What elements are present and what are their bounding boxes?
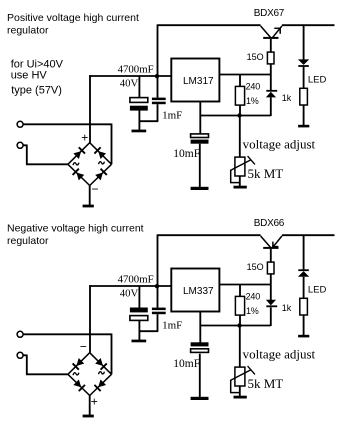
ground C3 <box>191 187 209 190</box>
ground bridge <box>83 205 94 208</box>
bridge ~ label right <box>99 372 105 375</box>
wire base lead down to R 15O <box>270 39 272 52</box>
wire LED branch tap from output <box>303 234 305 269</box>
LED indicator (pointing down) <box>298 59 309 67</box>
wire bridge bottom to ground <box>89 186 91 206</box>
svg-text:+: + <box>81 130 88 144</box>
bridge diode bottom-right (from -) <box>95 168 108 181</box>
capacitor 1mF <box>152 98 166 105</box>
terminal input 2 <box>17 142 23 148</box>
resistor 240 1% <box>235 86 244 105</box>
wire input 2 to bridge left corner <box>23 145 68 165</box>
diode D2 protection (pointing down) <box>266 300 277 307</box>
svg-text:−: − <box>80 340 87 354</box>
wire vertical from rail down to bridge + corner <box>89 285 91 353</box>
wire input rail <box>89 75 171 77</box>
svg-text:voltage adjust: voltage adjust <box>243 346 316 361</box>
ground C1 <box>132 340 147 343</box>
svg-text:1mF: 1mF <box>162 109 182 121</box>
wire LED anode to R 1k <box>303 277 305 299</box>
wire from R 15O to OUT node <box>270 64 272 90</box>
wire R240 bottom lead <box>239 315 241 325</box>
resistor 240 1% <box>235 296 244 315</box>
capacitor C4 4700mF electrolytic (+ plate down) <box>130 308 148 321</box>
ground pot <box>234 396 247 399</box>
terminal bar LED branch <box>298 125 309 128</box>
wire from R 15O to OUT node <box>270 274 272 300</box>
svg-text:5k MT: 5k MT <box>248 376 284 391</box>
wire ADJ net horizontal <box>200 325 271 327</box>
svg-text:Negative voltage high current: Negative voltage high current <box>7 223 144 235</box>
wire C2 bottom lead <box>157 104 159 121</box>
wire C2 to C1 ground connector <box>139 120 159 122</box>
svg-text:LM317: LM317 <box>183 76 214 87</box>
terminal input 2 <box>17 352 23 358</box>
svg-text:1%: 1% <box>246 306 259 316</box>
wire input 2 to bridge left corner <box>23 355 68 375</box>
svg-text:15O: 15O <box>247 52 264 62</box>
svg-text:4700mF: 4700mF <box>118 274 154 286</box>
svg-text:voltage adjust: voltage adjust <box>243 136 316 151</box>
resistor 1k <box>300 88 308 105</box>
bridge ~ label left <box>73 373 79 376</box>
wire pot wiper to bottom lead <box>230 170 240 183</box>
node junction dot rail / C1 / C2 <box>155 74 159 78</box>
svg-text:LED: LED <box>308 75 327 86</box>
bridge rectifier frame <box>68 143 112 186</box>
wire R240 top lead <box>239 75 241 87</box>
svg-text:10mF: 10mF <box>173 148 200 160</box>
svg-text:40V: 40V <box>120 77 139 89</box>
wire regulator output to 15O bottom node <box>219 284 271 286</box>
svg-text:regulator: regulator <box>7 25 49 37</box>
wire LED cathode to R 1k <box>303 67 305 88</box>
bridge ~ label right <box>99 162 105 165</box>
wire bridge bottom to ground <box>89 396 91 416</box>
bridge diode top-left (to +) <box>73 147 86 160</box>
wire C2 bottom lead <box>157 314 159 331</box>
bridge diode bottom-left (to +) <box>73 379 86 392</box>
svg-text:240: 240 <box>246 291 261 301</box>
wire regulator output to 15O bottom node <box>219 74 271 76</box>
terminal input 1 <box>17 331 23 337</box>
bridge diode top-right (to +) <box>94 147 107 160</box>
wire diode to ADJ net <box>270 307 272 326</box>
svg-text:240: 240 <box>246 81 261 91</box>
wire collector rail top segment <box>158 24 261 26</box>
diode D1 protection (pointing up) <box>266 90 277 98</box>
svg-text:5k MT: 5k MT <box>248 166 284 181</box>
svg-text:−: − <box>92 182 99 196</box>
svg-text:LED: LED <box>308 285 327 296</box>
bridge rectifier frame <box>68 353 112 396</box>
wire regulator ADJ pin down <box>199 312 201 344</box>
wire C3 bottom lead <box>199 354 201 398</box>
regulator LM337 <box>171 269 219 312</box>
ground pot <box>234 186 247 189</box>
svg-text:BDX66: BDX66 <box>254 218 285 229</box>
wire pot wiper to bottom lead <box>230 380 240 393</box>
bridge diode bottom-left (from -) <box>72 168 85 181</box>
wire input rail <box>89 285 171 287</box>
wire vertical from rail down to bridge + corner <box>89 75 91 143</box>
resistor 15O <box>267 52 274 64</box>
svg-text:15O: 15O <box>247 262 264 272</box>
wire C1 bottom lead <box>138 110 140 130</box>
wire emitter output segment <box>282 234 335 236</box>
wire pot top lead <box>239 326 241 368</box>
wire pot bottom lead <box>239 176 241 186</box>
wire vertical from input rail junction up to collector rail <box>157 24 159 97</box>
wire C1 top lead <box>138 286 140 308</box>
svg-text:LM337: LM337 <box>183 286 214 297</box>
ground C1 <box>132 130 147 133</box>
wire collector rail top segment <box>158 234 261 236</box>
wire pot bottom lead <box>239 386 241 396</box>
ground bridge <box>83 415 94 418</box>
wire diode to ADJ net <box>270 97 272 116</box>
wire base lead down to R 15O <box>270 249 272 262</box>
resistor 15O <box>267 262 274 274</box>
wire emitter output segment <box>282 24 335 26</box>
capacitor C3 10mF electrolytic (+ up) <box>191 134 209 144</box>
wire R 1k to terminal <box>303 315 305 335</box>
wire C1 bottom lead <box>138 320 140 340</box>
wire C2 to C1 ground connector <box>139 330 159 332</box>
svg-text:type (57V): type (57V) <box>11 85 62 97</box>
potentiometer 5k MT <box>231 366 255 386</box>
node junction dot ADJ / R240 / pot <box>237 113 241 117</box>
wire LED branch tap from output <box>303 24 305 59</box>
transistor Q1 BDX67 NPN pass transistor <box>261 26 282 39</box>
svg-text:BDX67: BDX67 <box>254 8 285 19</box>
bridge diode bottom-right (to +) <box>94 379 107 392</box>
capacitor 1mF <box>152 308 166 315</box>
capacitor C1 4700mF electrolytic (+ plate up) <box>130 98 148 111</box>
capacitor C6 10mF electrolytic (+ down) <box>191 342 209 352</box>
wire C3 bottom lead <box>199 144 201 188</box>
terminal bar LED branch <box>298 335 309 338</box>
svg-text:1mF: 1mF <box>162 319 182 331</box>
svg-text:1k: 1k <box>282 303 292 313</box>
svg-text:40V: 40V <box>120 287 139 299</box>
potentiometer 5k MT <box>231 156 255 176</box>
wire R 1k to terminal <box>303 105 305 125</box>
wire vertical from input rail junction up to collector rail <box>157 234 159 307</box>
wire C1 top lead <box>138 76 140 98</box>
node junction dot rail / C1 / C2 <box>155 284 159 288</box>
svg-text:regulator: regulator <box>7 235 49 247</box>
ground C3 <box>191 397 209 400</box>
svg-text:Positive voltage high current: Positive voltage high current <box>7 12 139 24</box>
terminal input 1 <box>17 121 23 127</box>
node junction dot ADJ / R240 / pot <box>237 323 241 327</box>
bridge diode top-left (from -) <box>72 358 85 371</box>
wire R240 bottom lead <box>239 105 241 115</box>
bridge ~ label left <box>73 163 79 166</box>
svg-text:+: + <box>91 395 98 409</box>
wire input 1 to bridge right corner <box>23 334 111 375</box>
svg-text:10mF: 10mF <box>173 358 200 370</box>
svg-text:1k: 1k <box>282 93 292 103</box>
LED indicator (pointing up) <box>298 269 309 277</box>
svg-text:4700mF: 4700mF <box>118 64 154 76</box>
svg-text:use HV: use HV <box>11 70 48 82</box>
wire ADJ net horizontal <box>200 115 271 117</box>
wire regulator ADJ pin down <box>199 102 201 134</box>
regulator LM317 <box>171 59 219 102</box>
bridge diode top-right (from -) <box>95 358 108 371</box>
wire input 1 to bridge right corner <box>23 124 111 165</box>
wire pot top lead <box>239 116 241 158</box>
resistor 1k <box>300 298 308 315</box>
transistor Q2 BDX66 PNP pass transistor <box>261 236 282 249</box>
svg-text:1%: 1% <box>246 96 259 106</box>
wire R240 top lead <box>239 285 241 297</box>
